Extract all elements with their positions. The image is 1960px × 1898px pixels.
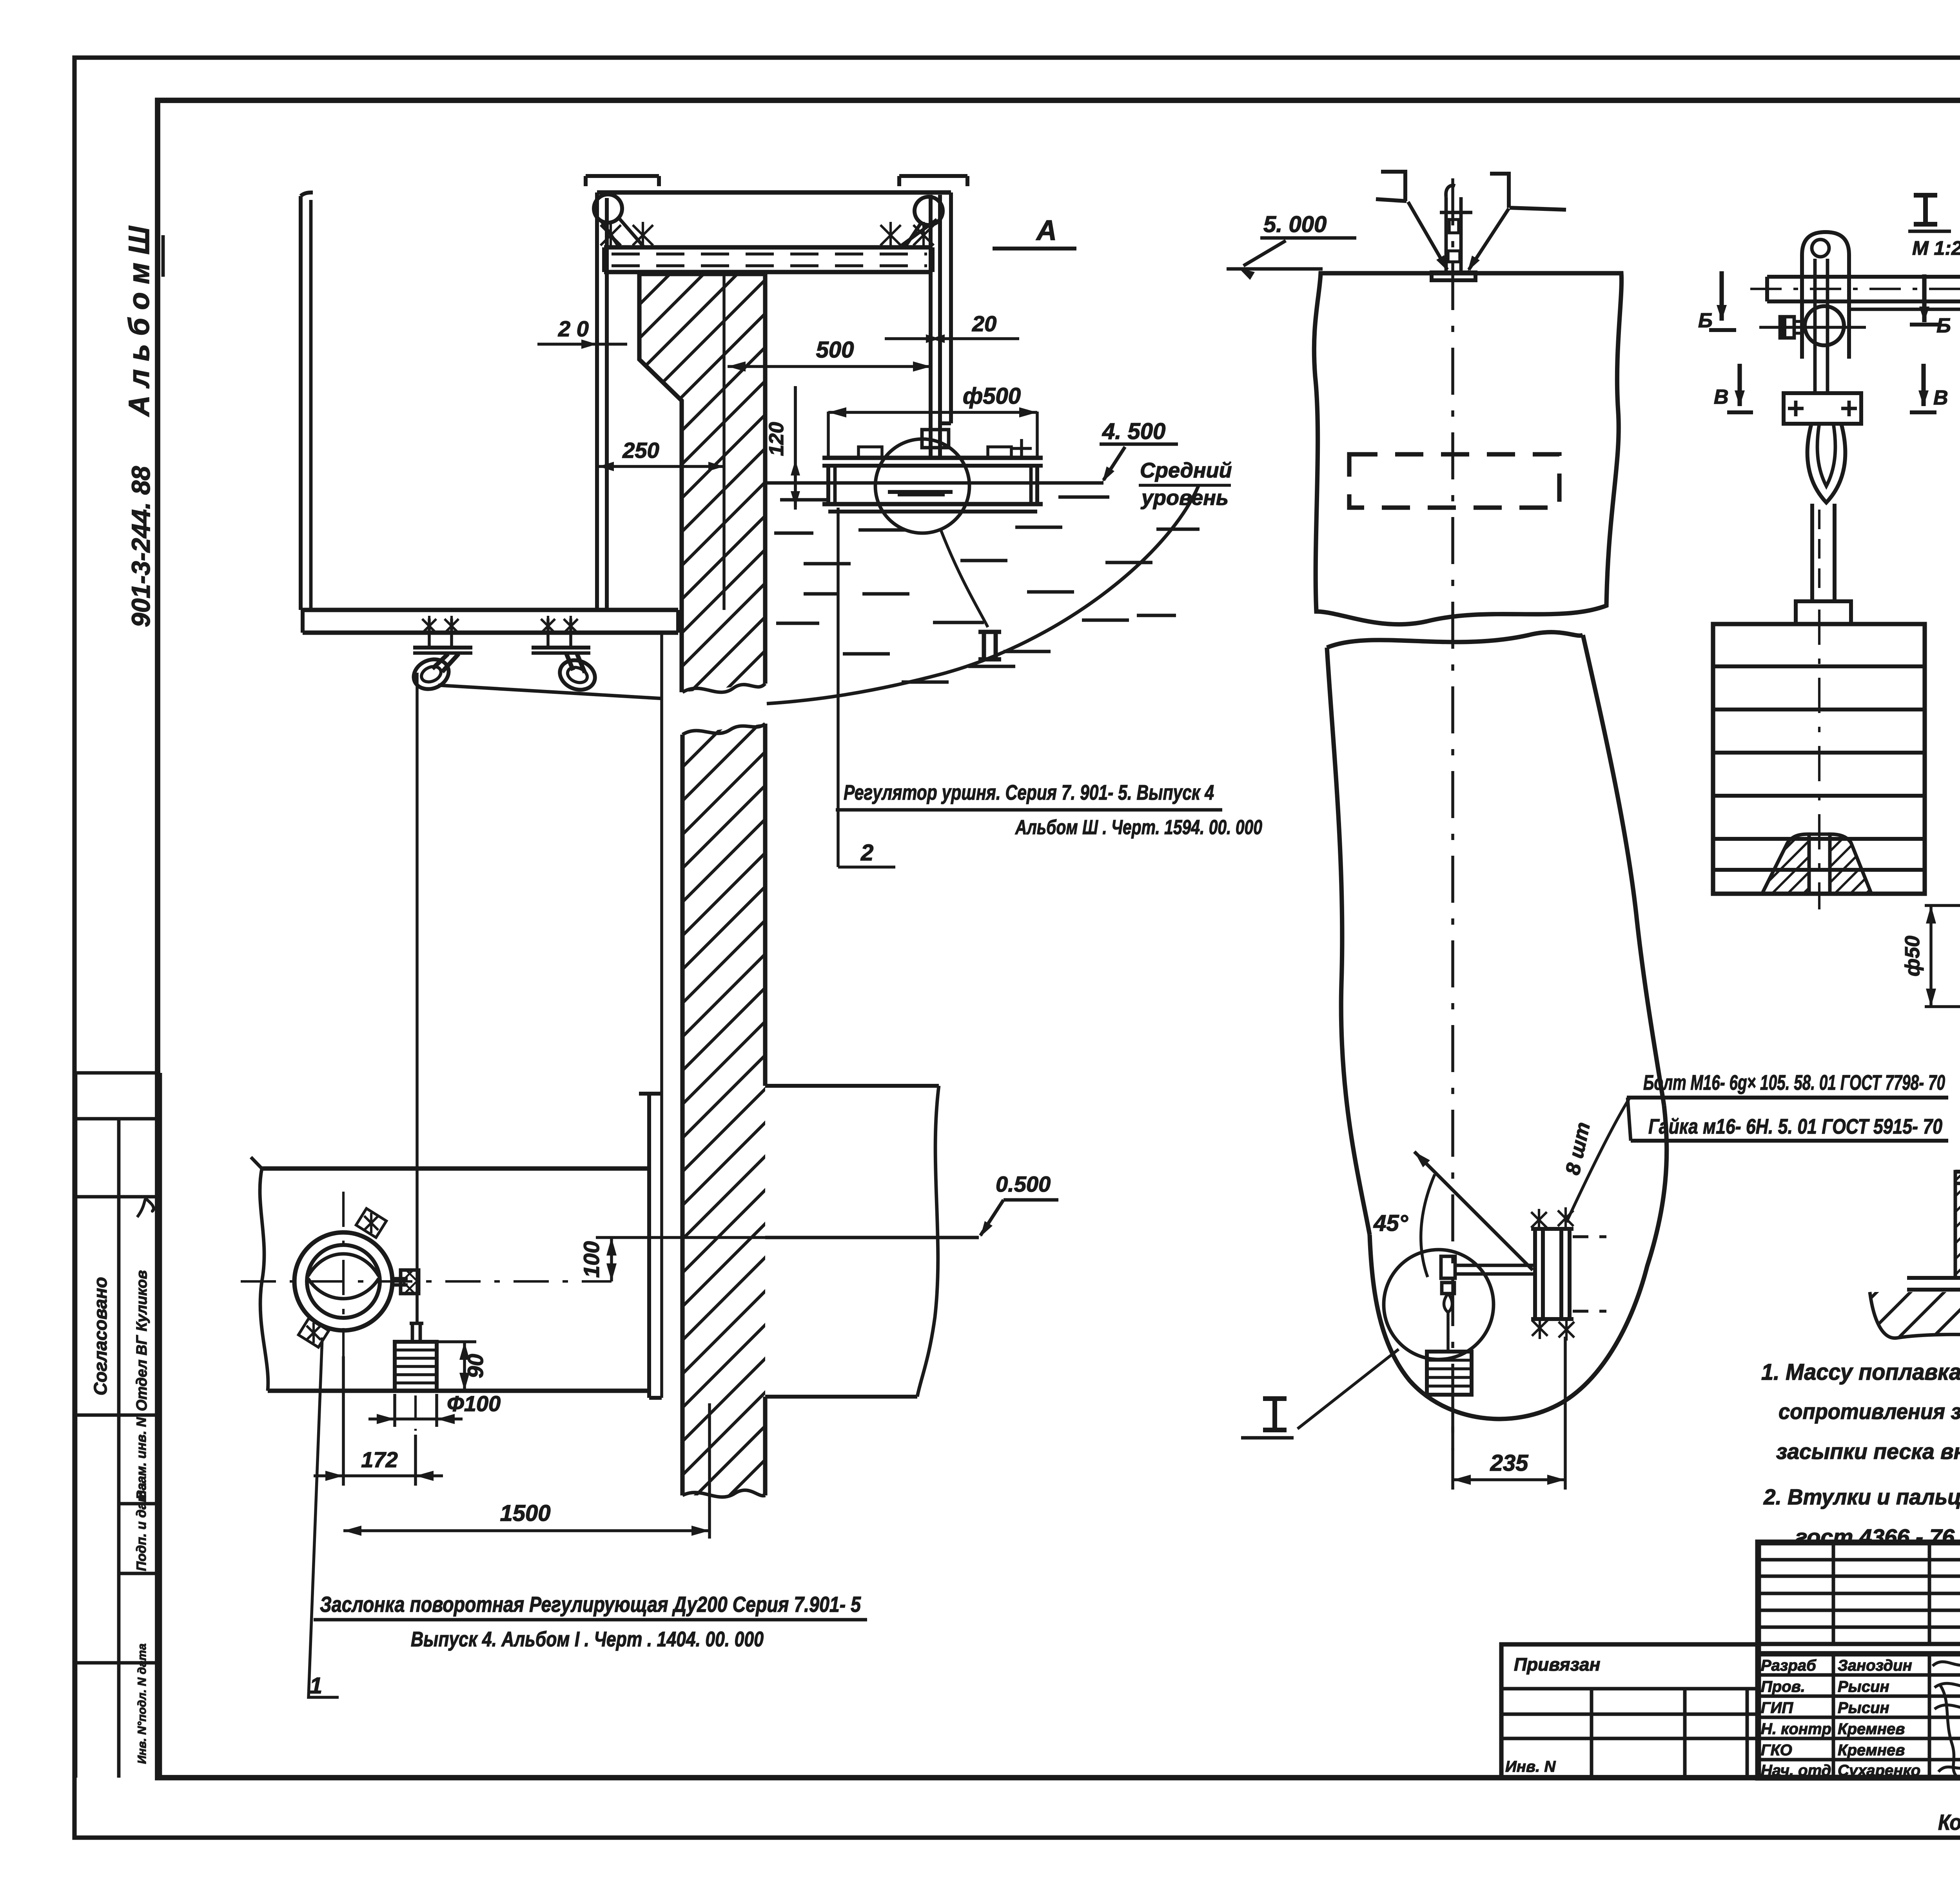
svg-text:Гайка м16- 6Н. 5. 01 ГОСТ 59: Гайка м16- 6Н. 5. 01 ГОСТ 5915- 70 xyxy=(1648,1115,1942,1138)
svg-text:В: В xyxy=(1933,386,1948,409)
flange dashed lines xyxy=(1573,1235,1606,1238)
svg-text:100: 100 xyxy=(579,1241,604,1277)
valve vertical centerline xyxy=(342,1192,345,1356)
position 1 leader xyxy=(309,1337,339,1697)
tank bottom slab xyxy=(303,608,678,612)
threaded rod to float xyxy=(1810,504,1814,601)
svg-text:ГКО: ГКО xyxy=(1761,1742,1792,1759)
svg-text:4. 500: 4. 500 xyxy=(1102,419,1165,444)
title block outline xyxy=(1758,1542,1960,1778)
dim 20 right xyxy=(885,337,1019,340)
cable clamp lower xyxy=(1442,1283,1454,1294)
valve left stub xyxy=(290,1274,294,1289)
svg-text:Рысин: Рысин xyxy=(1838,1678,1889,1695)
dim 172 xyxy=(314,1474,443,1477)
dim 120 extension xyxy=(794,386,797,510)
pipe through wall - bottom xyxy=(268,1388,647,1393)
cable from coupling to weight xyxy=(416,1294,419,1323)
svg-text:А: А xyxy=(1036,215,1057,246)
float centerline xyxy=(1818,610,1820,909)
valve tab upper-right xyxy=(356,1208,386,1238)
detail I label xyxy=(1263,1399,1287,1430)
damper suspension rod xyxy=(660,633,663,1398)
float leader to callout xyxy=(837,508,840,867)
title block mid separator xyxy=(1758,1651,1960,1657)
svg-text:М 1:2: М 1:2 xyxy=(1912,237,1960,259)
valve body outer circle xyxy=(294,1232,392,1330)
side grub screw xyxy=(1780,317,1794,338)
dim 172 extensions xyxy=(342,1356,345,1486)
wall niche top edge xyxy=(765,1084,939,1088)
svg-text:Инв. N°подл. N дата: Инв. N°подл. N дата xyxy=(136,1644,149,1764)
level 0.500 line in niche xyxy=(765,1236,979,1239)
rope between pulleys and to damper xyxy=(438,685,662,699)
wall joint line xyxy=(722,274,726,610)
wall column lower (hatched) xyxy=(682,724,765,1495)
svg-text:2: 2 xyxy=(860,840,873,866)
top-right pulley bracket cap xyxy=(899,174,967,178)
dim 100 extension xyxy=(596,1236,765,1239)
svg-text:А л ь б о м Ш: А л ь б о м Ш xyxy=(123,225,155,417)
45 deg line xyxy=(1414,1152,1533,1270)
svg-text:1500: 1500 xyxy=(500,1501,550,1526)
rope down to weight xyxy=(416,673,419,1325)
link plate crosses xyxy=(1788,407,1804,410)
tank top slab xyxy=(597,190,951,194)
detail I indicator circle xyxy=(1384,1250,1494,1359)
dim 90 extension xyxy=(437,1340,476,1343)
funnel diagonal left xyxy=(1408,202,1447,270)
svg-text:Заноздин: Заноздин xyxy=(1838,1657,1912,1674)
svg-text:1. Массу поплавка подобрать: 1. Массу поплавка подобрать в зависимост… xyxy=(1761,1359,1960,1385)
svg-text:ГИП: ГИП xyxy=(1761,1699,1793,1717)
float rod clamp xyxy=(922,430,949,448)
dim Ф500 xyxy=(828,411,1037,414)
45 deg arc xyxy=(1421,1174,1435,1277)
base plate strip xyxy=(1907,1276,1960,1280)
angle bracket web (hatched) xyxy=(1955,1172,1960,1278)
svg-text:Рысин: Рысин xyxy=(1838,1699,1889,1717)
valve shaft to coupling xyxy=(392,1277,408,1281)
roller axis line xyxy=(1759,326,1866,329)
dim f50 (vertical) xyxy=(1929,905,1933,1007)
detail I title xyxy=(1914,195,1937,224)
left margin stamp table xyxy=(76,1073,160,1778)
float box xyxy=(1713,624,1925,894)
angle bracket top flange xyxy=(1955,1170,1960,1174)
float top fittings xyxy=(858,447,882,458)
teardrop hanger xyxy=(1808,424,1846,503)
dim 20 left line xyxy=(537,343,627,346)
suspension base plate xyxy=(1432,272,1475,280)
top corner bracket left xyxy=(1381,170,1407,174)
top-left pulley xyxy=(594,194,622,223)
svg-text:172: 172 xyxy=(361,1447,397,1472)
svg-text:Сухаренко: Сухаренко xyxy=(1838,1762,1920,1779)
dim f50 extensions xyxy=(1925,904,1960,907)
valve horizontal centerline xyxy=(241,1280,612,1283)
rod collar xyxy=(1796,601,1851,624)
svg-text:Альбом Ш . Черт. 1594. 00. 000: Альбом Ш . Черт. 1594. 00. 000 xyxy=(1014,816,1262,839)
flange caps xyxy=(1531,1227,1573,1231)
dim 90 (vertical) xyxy=(463,1342,466,1391)
svg-text:Пров.: Пров. xyxy=(1761,1678,1805,1695)
bolt label leader xyxy=(1566,1098,1630,1222)
dashed opening rectangle xyxy=(1349,454,1559,508)
detail II label xyxy=(978,632,1001,659)
svg-text:Выпуск 4. Альбом I . Черт .: Выпуск 4. Альбом I . Черт . 1404. 00. 00… xyxy=(411,1628,764,1651)
svg-text:Н. контр: Н. контр xyxy=(1761,1720,1831,1738)
float right support xyxy=(1029,466,1033,504)
middle panel lower piece xyxy=(1327,632,1583,648)
funnel diagonal right xyxy=(1469,209,1509,270)
dim Ф100 xyxy=(368,1417,463,1421)
middle counterweight xyxy=(1427,1352,1472,1395)
middle panel upper outline xyxy=(1314,273,1621,624)
pipe through wall - top xyxy=(262,1166,649,1170)
dim 500 xyxy=(728,365,931,368)
level mark 0.500 xyxy=(980,1200,1004,1236)
detail II indicator circle xyxy=(875,439,969,533)
dim 1500 extension xyxy=(708,1403,711,1539)
svg-text:1: 1 xyxy=(310,1673,322,1698)
svg-text:120: 120 xyxy=(765,422,788,456)
cable hook xyxy=(1444,1294,1452,1312)
title block upper-left grid xyxy=(1758,1542,1960,1778)
svg-text:Ф100: Ф100 xyxy=(447,1391,501,1416)
beam hidden dashes xyxy=(612,252,927,256)
svg-text:засыпки песка внутрь поплав: засыпки песка внутрь поплавка . Масса по… xyxy=(1776,1439,1960,1464)
pipe top-left corner tick xyxy=(251,1157,262,1169)
svg-text:235: 235 xyxy=(1490,1450,1529,1476)
svg-text:0.500: 0.500 xyxy=(996,1172,1051,1196)
roller circle xyxy=(1805,306,1844,345)
flume left wall (20 plate) xyxy=(595,192,599,610)
svg-text:5. 000: 5. 000 xyxy=(1263,212,1327,237)
svg-text:Разраб: Разраб xyxy=(1761,1657,1817,1674)
svg-text:В: В xyxy=(1714,386,1729,408)
dim Ф500 extensions xyxy=(827,412,830,458)
dim 100 (vertical) xyxy=(610,1238,613,1281)
under-slab pulley 2 (tilted ring) xyxy=(555,655,599,695)
top-right pulley xyxy=(915,197,943,225)
svg-text:Инв. N: Инв. N xyxy=(1505,1758,1556,1775)
stamp signature squiggle xyxy=(137,1199,159,1217)
svg-text:2 0: 2 0 xyxy=(558,316,589,341)
water level line (Средний уровень) xyxy=(765,481,1103,485)
slab bolt marks 1 xyxy=(428,619,431,648)
flange plate right xyxy=(1559,1229,1563,1319)
detail I bracket housing xyxy=(1802,232,1849,359)
flange bolt marks xyxy=(1531,1212,1547,1228)
svg-text:ф500: ф500 xyxy=(963,383,1021,409)
svg-text:Подп. и дата: Подп. и дата xyxy=(134,1483,149,1571)
bracket inner straps xyxy=(1813,259,1817,393)
svg-text:45°: 45° xyxy=(1373,1210,1408,1236)
cable clamp upper xyxy=(1441,1256,1455,1278)
weight centerline xyxy=(414,1395,417,1431)
rod horizontal xyxy=(1767,275,1960,279)
under-slab pulley 1 (tilted ring) xyxy=(409,654,453,694)
wall niche right break (wavy) xyxy=(917,1086,939,1397)
svg-text:Копировала Родлевская: Копировала Родлевская xyxy=(1938,1810,1960,1834)
svg-text:Заслонка поворотная Регулиру: Заслонка поворотная Регулирующая Ду200 С… xyxy=(320,1592,861,1617)
svg-text:ф50: ф50 xyxy=(1901,936,1924,976)
middle blob outline (water cut) xyxy=(1370,1105,1667,1419)
middle centre axis xyxy=(1451,178,1454,1450)
water surface boundary curve xyxy=(767,485,1199,704)
beam bolt marks right xyxy=(880,225,901,245)
water dashes below float xyxy=(780,498,827,502)
svg-text:Привязан: Привязан xyxy=(1514,1654,1600,1675)
flume right wall / float rod xyxy=(929,195,933,458)
valve coupling (hatched) xyxy=(401,1270,419,1294)
wall niche bottom edge xyxy=(765,1395,917,1399)
svg-text:уровень: уровень xyxy=(1140,486,1229,510)
svg-text:250: 250 xyxy=(622,438,659,463)
dim Ф100 extensions xyxy=(393,1394,396,1427)
detail II leader xyxy=(941,530,988,627)
svg-text:Кремнев: Кремнев xyxy=(1838,1742,1905,1759)
svg-text:Кремнев: Кремнев xyxy=(1838,1720,1905,1738)
damper blade plate xyxy=(647,1094,651,1398)
top-left pulley bracket cap xyxy=(586,174,659,178)
dim 235 xyxy=(1453,1478,1565,1481)
dim 120 (vertical) xyxy=(794,386,797,507)
float bottom plug (hatched) xyxy=(1762,834,1809,894)
valve body inner circle xyxy=(307,1245,380,1318)
pipe left break (wavy) xyxy=(260,1169,268,1391)
svg-text:Согласовано: Согласовано xyxy=(90,1277,111,1395)
float left support xyxy=(826,466,830,504)
float bottom plate xyxy=(822,502,1043,506)
dim 1500 xyxy=(343,1529,710,1532)
privyazan table xyxy=(1501,1644,1758,1778)
flange plate left xyxy=(1533,1229,1537,1319)
svg-text:Нач. отд: Нач. отд xyxy=(1761,1762,1831,1779)
svg-text:сопротивления заслонки повор: сопротивления заслонки поворотной регули… xyxy=(1779,1399,1960,1424)
base slab (hatched) xyxy=(1870,1292,1960,1338)
svg-text:Регулятор уршня. Серия 7. 901: Регулятор уршня. Серия 7. 901- 5. Выпуск… xyxy=(844,781,1214,804)
svg-text:Болт М16- 6g× 105. 58. 01 ГОС: Болт М16- 6g× 105. 58. 01 ГОСТ 7798- 70 xyxy=(1643,1071,1945,1094)
beam under slab xyxy=(604,245,933,249)
detail I leader xyxy=(1298,1349,1399,1429)
cable to weight xyxy=(1446,1312,1450,1352)
under-slab pulley bracket 1 xyxy=(413,646,472,650)
dim 250 xyxy=(598,465,724,468)
valve tab lower-left xyxy=(298,1318,328,1347)
staff signatures xyxy=(1933,1662,1960,1666)
counterweight stack xyxy=(395,1342,437,1391)
short dash inside float (water line) xyxy=(888,490,953,494)
suspension rod at top xyxy=(1445,197,1448,272)
svg-text:500: 500 xyxy=(816,337,854,363)
wall column bottom break (wavy) xyxy=(682,1490,765,1497)
valve disc (lens) xyxy=(308,1254,379,1276)
svg-text:Отдел ВГ Куликов: Отдел ВГ Куликов xyxy=(134,1270,150,1411)
weight stem xyxy=(411,1323,414,1342)
pipe stub to flange xyxy=(1455,1264,1535,1267)
wall upper break (wavy) xyxy=(682,684,765,692)
dim 235 extensions xyxy=(1451,1407,1454,1490)
under-slab pulley bracket 2 xyxy=(532,646,590,650)
svg-text:Средний: Средний xyxy=(1140,459,1232,482)
slab bolt marks 2 xyxy=(546,619,550,648)
svg-text:2. Втулки и пальцы роликов: 2. Втулки и пальцы роликов смазать конси… xyxy=(1763,1484,1960,1509)
bracket pivot hole xyxy=(1812,240,1829,257)
svg-text:901-3-244. 88: 901-3-244. 88 xyxy=(126,466,155,627)
svg-text:20: 20 xyxy=(972,311,996,336)
float top plate xyxy=(822,455,1043,460)
tank left wall xyxy=(299,196,303,610)
beam bolt marks left xyxy=(601,225,621,245)
top corner bracket right xyxy=(1490,172,1511,176)
svg-text:90: 90 xyxy=(463,1354,488,1378)
staff rows grid xyxy=(1758,1654,1960,1778)
link plate xyxy=(1784,393,1861,424)
rod centerline xyxy=(1750,288,1960,290)
wall section upper (hatched) xyxy=(639,274,765,692)
